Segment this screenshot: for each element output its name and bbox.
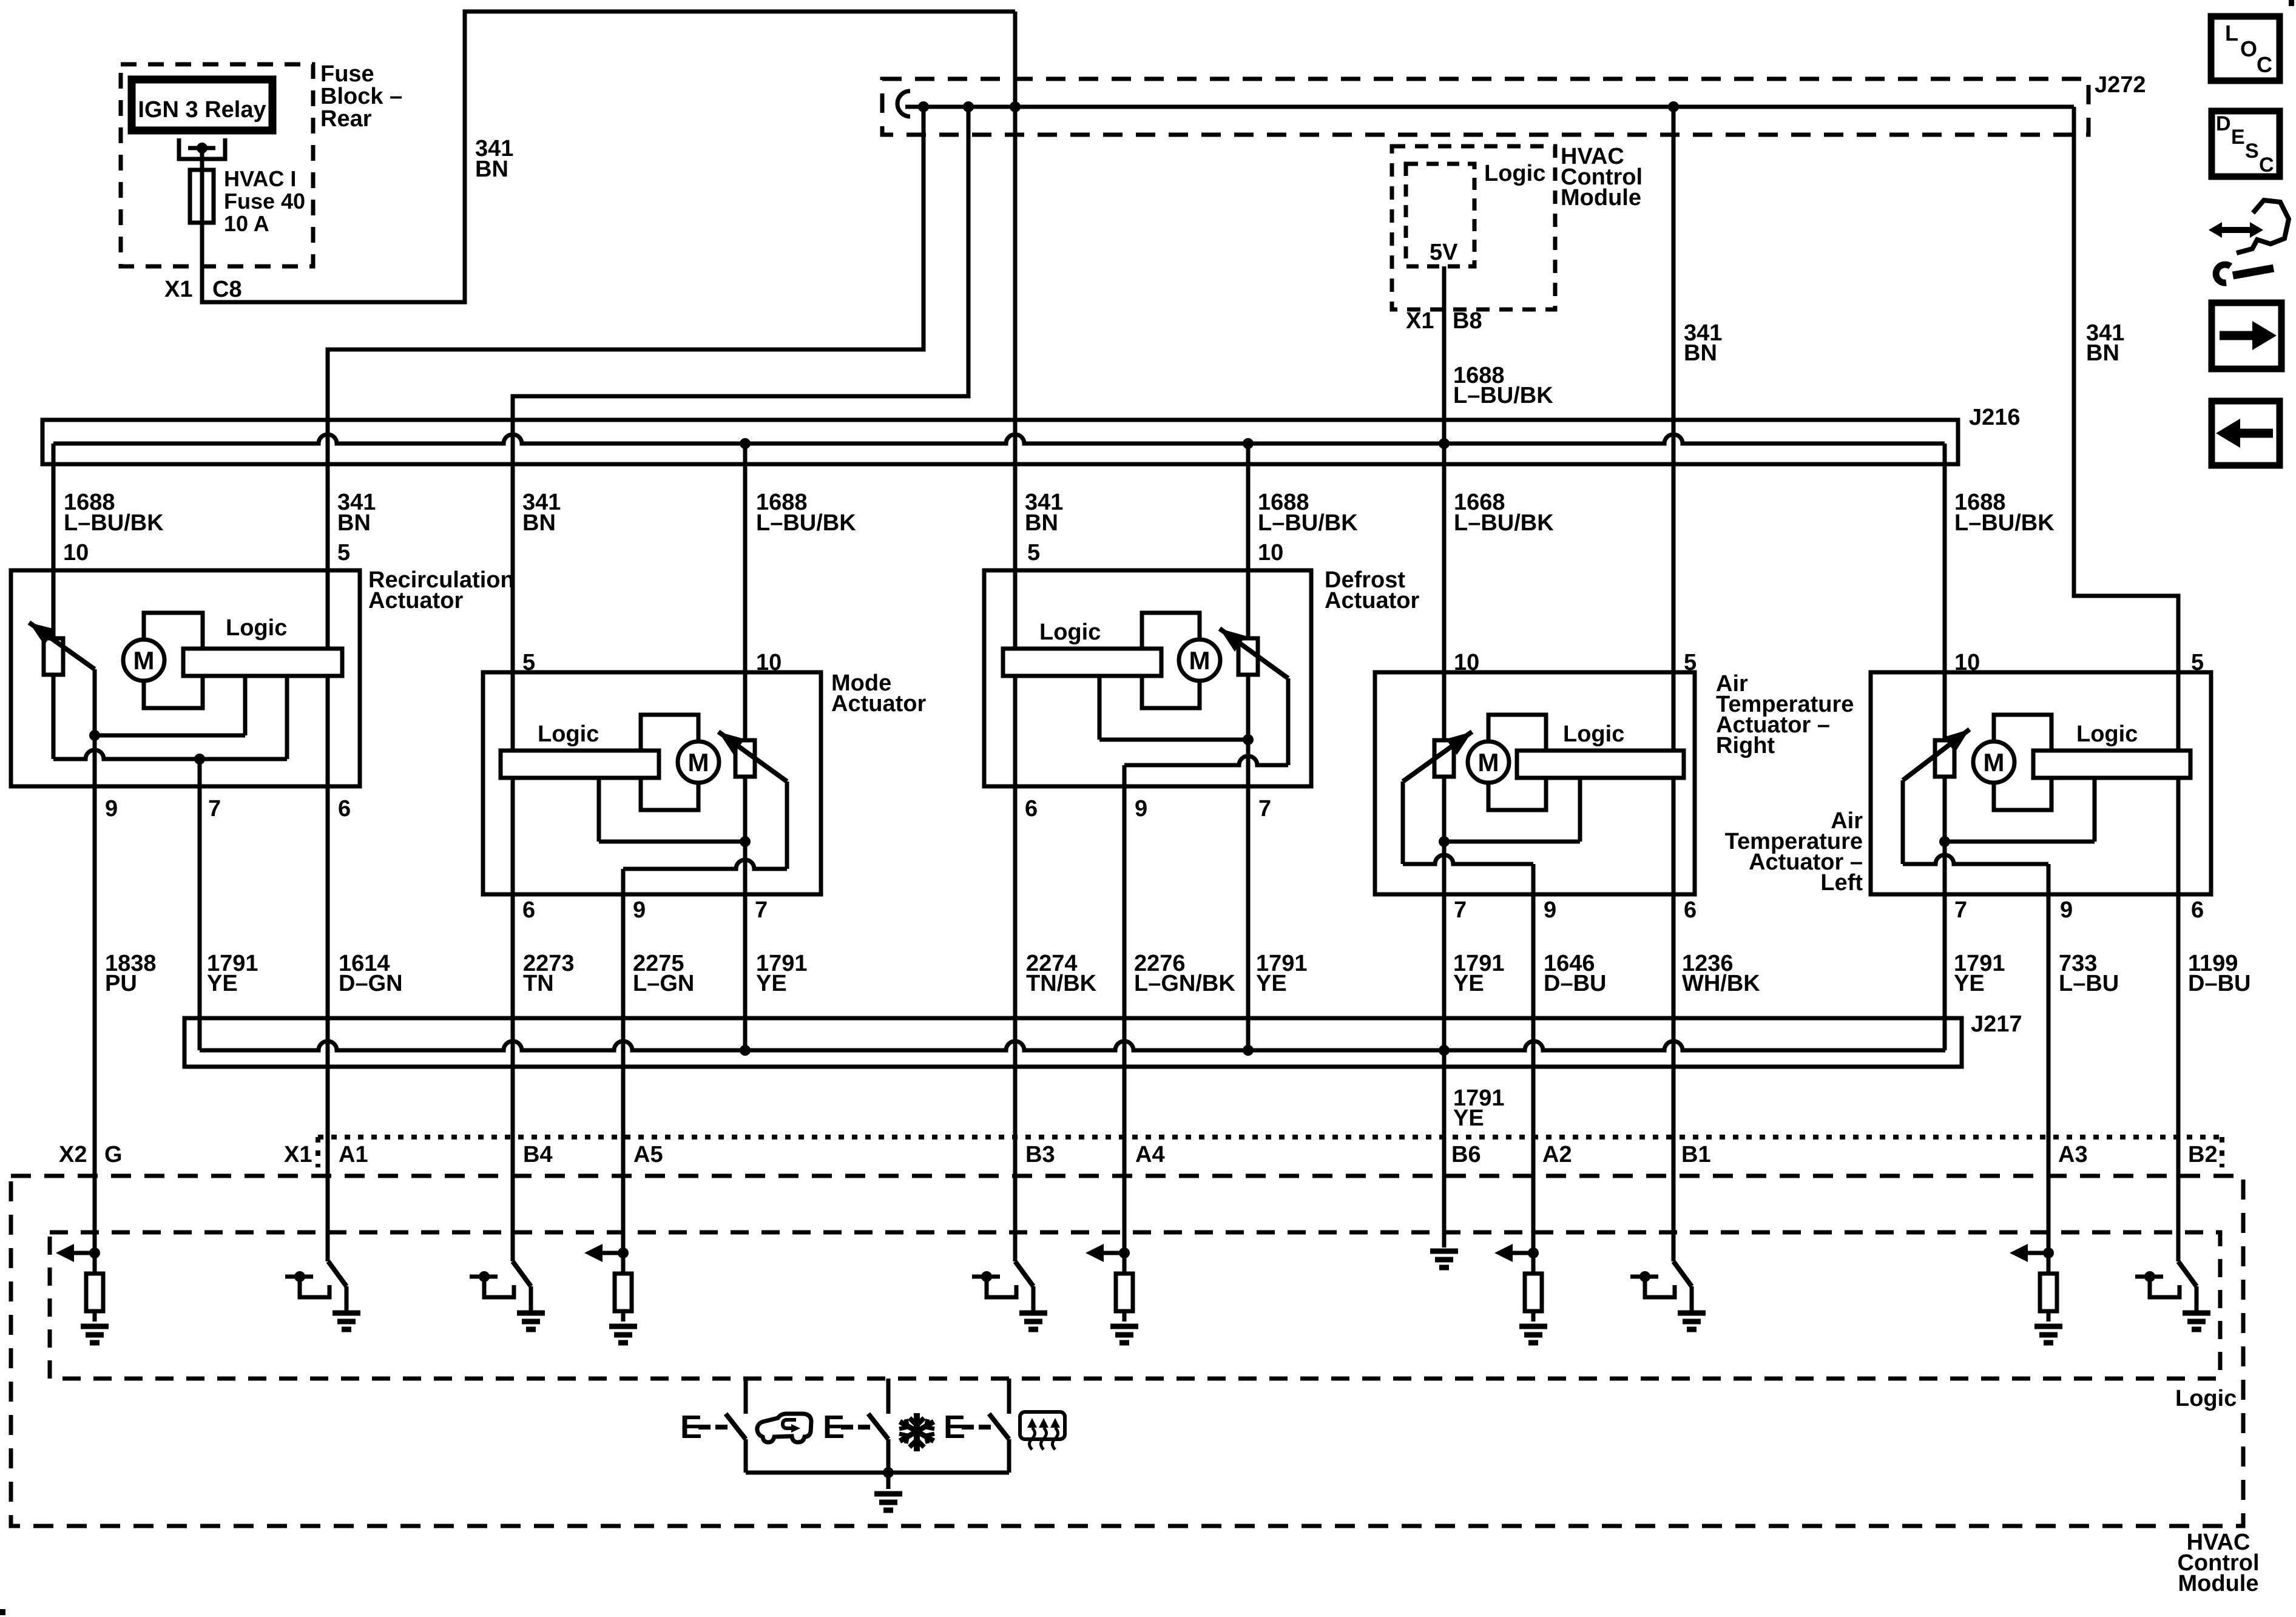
svg-text:5: 5 [1027, 540, 1040, 565]
motor M (Defrost) [1179, 640, 1220, 681]
switch to ground (A1) [285, 1275, 313, 1279]
svg-text:L–BU/BK: L–BU/BK [1954, 510, 2055, 536]
svg-text:Left: Left [1820, 870, 1863, 896]
motor frame (ATL) [1994, 715, 2051, 810]
svg-text:J272: J272 [2095, 72, 2146, 98]
svg-text:A5: A5 [633, 1142, 663, 1167]
svg-text:X1: X1 [1406, 308, 1434, 334]
svg-text:S: S [2245, 140, 2259, 163]
ground (B6) [1430, 1249, 1458, 1254]
svg-text:Right: Right [1716, 733, 1775, 758]
wire logic bar to pot junction (ATL) [2093, 778, 2097, 842]
motor frame (Mode) [641, 715, 698, 810]
svg-text:M: M [1478, 748, 1499, 777]
svg-text:B1: B1 [1681, 1142, 1711, 1167]
svg-text:7: 7 [1258, 796, 1271, 822]
motor M (Mode) [678, 741, 719, 783]
HVAC Control Module dashed box (bottom) [11, 1176, 2243, 1526]
wire wiper to pin 9 (ATL) [1901, 780, 1905, 864]
svg-text:5: 5 [2191, 650, 2204, 675]
svg-text:Module: Module [2178, 1571, 2259, 1596]
wire 341 BN J272 to Mode Actuator pin 5 [513, 107, 968, 751]
svg-text:TN/BK: TN/BK [1026, 971, 1097, 996]
logic bar (ATL) [2033, 751, 2190, 778]
svg-text:6: 6 [338, 796, 351, 822]
svg-text:10: 10 [1954, 650, 1980, 675]
svg-text:9: 9 [1135, 796, 1147, 822]
wire 341 BN J272 to Air Temp Right pin 5 [1672, 107, 1676, 751]
bus wire inside J217 with humps [200, 1041, 1945, 1050]
potentiometer (ATR) [1434, 740, 1454, 777]
pot wiper arrow (Recirc) [29, 623, 95, 669]
logic bar (Mode) [501, 751, 659, 778]
wire 1791 YE J217 to B6 [1442, 1050, 1447, 1247]
actuator box Air Temperature Actuator - Left [1871, 672, 2211, 894]
svg-text:Fuse: Fuse [320, 61, 374, 87]
wire 341 BN J272 to Recirculation Actuator pin 5 [328, 107, 923, 649]
fuse HVAC I Fuse 40 10 A [190, 170, 214, 223]
wire 341 BN vertical J272 to Defrost Actuator pin 5 [1013, 12, 1018, 649]
svg-text:C8: C8 [212, 277, 242, 302]
wire logic bar to pot junction (ATR) [1578, 778, 1582, 842]
logic bar (Defrost) [1003, 649, 1161, 676]
pot wiper arrow (Defrost) [1220, 629, 1288, 678]
svg-text:L: L [2225, 21, 2238, 46]
wire pin 7 Recirc to J217 [198, 759, 202, 1050]
ground (A2) [1519, 1324, 1547, 1329]
logic bar (Recirc) [183, 649, 342, 676]
svg-text:L–BU/BK: L–BU/BK [1453, 383, 1553, 408]
node J217 from Mode pin 7 [740, 1045, 751, 1056]
svg-text:A4: A4 [1135, 1142, 1165, 1167]
svg-text:X1: X1 [284, 1142, 312, 1167]
svg-text:J217: J217 [1971, 1011, 2022, 1037]
relay IGN 3 Relay [132, 79, 272, 130]
svg-text:C: C [2259, 154, 2274, 177]
logic output stub (recirculation switch) [744, 1379, 748, 1414]
actuator box Defrost Actuator [984, 570, 1311, 786]
motor M (Recirc) [123, 640, 164, 681]
svg-text:BN: BN [1684, 340, 1717, 366]
svg-text:O: O [2240, 36, 2257, 61]
svg-text:Block –: Block – [320, 84, 402, 109]
svg-text:G: G [104, 1142, 123, 1167]
pull-up sense node with arrow (A3) [2027, 1251, 2048, 1255]
page corner marks [2289, 0, 2294, 6]
resistor (A5) [621, 1253, 626, 1274]
wire 1646 D-BU ATR pin 9 to A2 [1531, 864, 1536, 1253]
svg-text:Logic: Logic [2175, 1386, 2237, 1411]
wire 341 BN J272 right end to Air Temp Left pin 5 [2074, 107, 2178, 751]
HVAC Control Module dashed box (top) [1392, 146, 1555, 309]
svg-text:Fuse 40: Fuse 40 [224, 189, 305, 214]
svg-text:10: 10 [63, 540, 89, 565]
switch to ground (B4) [470, 1275, 498, 1279]
resistor (A3) [2047, 1253, 2051, 1274]
svg-text:Actuator: Actuator [1325, 588, 1419, 613]
node J217 from ATR pin 7 [1439, 1045, 1450, 1056]
svg-text:5V: 5V [1430, 240, 1458, 265]
svg-text:5: 5 [522, 650, 535, 675]
svg-text:9: 9 [1544, 897, 1556, 923]
svg-text:X1: X1 [164, 277, 192, 302]
svg-text:YE: YE [207, 971, 238, 996]
svg-text:Module: Module [1561, 185, 1641, 211]
svg-text:D–BU: D–BU [1544, 971, 1606, 996]
svg-text:TN: TN [523, 971, 554, 996]
svg-text:D–BU: D–BU [2188, 971, 2250, 996]
motor frame (Defrost) [1142, 613, 1200, 708]
wire 1688 L-BU/BK J216 right end to ATL pin 10 [1943, 444, 1947, 740]
node pot junction (ATL) [1939, 836, 1950, 847]
potentiometer (ATL) [1935, 740, 1954, 777]
icon A/C snowflake [914, 1413, 920, 1451]
ground (A3) [2034, 1324, 2062, 1329]
logic dashed box with 5V source [1406, 164, 1474, 266]
ground (switch common) [886, 1473, 891, 1489]
svg-text:B6: B6 [1451, 1142, 1481, 1167]
logic inner dashed box [50, 1232, 2220, 1379]
wire 1688 L-BU/BK J216 to Mode pin 10 [743, 444, 748, 740]
wire pin6 ATR to B1 [1672, 778, 1676, 1261]
svg-text:HVAC I: HVAC I [224, 166, 296, 191]
svg-text:A3: A3 [2058, 1142, 2088, 1167]
svg-text:Logic: Logic [2076, 721, 2138, 747]
svg-text:7: 7 [208, 796, 221, 822]
svg-text:YE: YE [756, 971, 787, 996]
svg-text:10: 10 [1454, 650, 1479, 675]
svg-text:YE: YE [1954, 971, 1985, 996]
svg-text:L–BU/BK: L–BU/BK [756, 510, 856, 536]
bus wire inside J216 with pass-over humps [53, 434, 1945, 444]
ground (G) [81, 1324, 109, 1329]
icon box forward arrow [2212, 303, 2281, 369]
svg-text:9: 9 [2060, 897, 2073, 923]
wire switch common bus [746, 1471, 1009, 1475]
pull-up sense node with arrow (A5) [601, 1251, 623, 1255]
svg-text:Logic: Logic [538, 721, 599, 747]
wire logic bar to pot junction (Defrost) [1098, 676, 1102, 740]
wire pot bottom to pin 7 (ATR) [1442, 777, 1447, 1050]
relay pin connector symbol [179, 138, 225, 159]
resistor (A4) [1123, 1253, 1127, 1274]
motor frame (Recirc) [144, 613, 203, 708]
svg-text:B3: B3 [1025, 1142, 1055, 1167]
svg-text:BN: BN [475, 157, 508, 182]
icon box LOC [2211, 16, 2280, 81]
svg-text:L–GN: L–GN [633, 971, 694, 996]
svg-text:Actuator: Actuator [368, 588, 463, 613]
svg-text:6: 6 [1684, 897, 1697, 923]
ground (B1) [1678, 1311, 1706, 1316]
svg-text:BN: BN [2086, 340, 2119, 366]
wire pin6 Mode to B4 [511, 778, 515, 1261]
svg-text:B4: B4 [523, 1142, 553, 1167]
wire pin 6 Recirc to A1 [326, 676, 330, 1261]
wire 733 L-BU ATL pin 9 to A3 [2047, 864, 2051, 1253]
svg-text:6: 6 [1025, 796, 1038, 822]
potentiometer (Defrost) [1238, 638, 1258, 675]
ground (B4) [517, 1311, 545, 1316]
wire pot bottom to pin 7 (Defrost) [1246, 675, 1251, 1050]
node J216 to ATR pin 10 [1439, 438, 1450, 449]
node J272 tap 4 [1668, 101, 1679, 112]
wire 1688 L-BU/BK 5V B8 down to J216 [1442, 266, 1447, 444]
connector J216 body [42, 420, 1958, 464]
svg-text:D: D [2216, 112, 2231, 135]
svg-text:5: 5 [337, 540, 350, 565]
svg-text:A2: A2 [1542, 1142, 1572, 1167]
node J272 tap 1 [918, 101, 929, 112]
svg-text:PU: PU [105, 971, 137, 996]
svg-text:L–BU: L–BU [2059, 971, 2119, 996]
switch to ground (B2) [2135, 1275, 2163, 1279]
wire 1688 L-BU/BK J216 to Recirculation pin 10 [52, 444, 56, 638]
svg-text:Logic: Logic [226, 615, 287, 641]
ground (A5) [609, 1324, 637, 1329]
node pot junction (ATR) [1439, 836, 1450, 847]
svg-text:B8: B8 [1453, 308, 1482, 334]
svg-text:Logic: Logic [1039, 619, 1101, 645]
potentiometer (Mode) [735, 740, 755, 777]
logic bar (ATR) [1517, 751, 1684, 778]
wire pin6 ATL to B2 [2176, 778, 2181, 1261]
wire 1838 PU Recirc pin 9 to X2-G [93, 735, 97, 1253]
wire 1668 L-BU/BK J216 to ATR pin 10 [1442, 444, 1447, 740]
svg-text:YE: YE [1256, 971, 1287, 996]
svg-text:9: 9 [105, 796, 118, 822]
svg-text:D–GN: D–GN [339, 971, 403, 996]
logic output stub (defrost switch) [1007, 1379, 1011, 1414]
connector J272 dashed box [882, 79, 2088, 135]
svg-text:B2: B2 [2188, 1142, 2218, 1167]
svg-text:M: M [1189, 646, 1210, 675]
wire pin6 Defrost to B3 [1013, 676, 1018, 1261]
wire 341 BN from fuse through X1-C8 up to connector J272 [202, 12, 1015, 302]
connector X1 dotted outline [318, 1135, 2222, 1139]
icon recirculation car [757, 1414, 811, 1442]
wire 2276 L-GN/BK Defrost pin 9 to A4 [1123, 765, 1127, 1253]
svg-text:L–BU/BK: L–BU/BK [1454, 510, 1554, 536]
svg-text:10 A: 10 A [224, 211, 269, 236]
wire pot bottom to pin 7 (Mode) [743, 777, 748, 1050]
svg-text:6: 6 [2191, 897, 2204, 923]
svg-text:7: 7 [755, 897, 768, 923]
wire pot bottom to pin 7 (ATL) [1943, 777, 1947, 1050]
node pot junction (Mode) [740, 836, 751, 847]
svg-text:BN: BN [337, 510, 371, 536]
wire pot bottom to logic bar (Recirc) [52, 675, 56, 759]
icon box DESC [2212, 111, 2280, 177]
svg-text:6: 6 [522, 897, 535, 923]
connector J272 feed hook [897, 91, 910, 116]
svg-text:5: 5 [1684, 650, 1697, 675]
svg-text:Rear: Rear [320, 106, 372, 132]
node switch common [883, 1467, 894, 1478]
wire logic bar to pot junction (Mode) [597, 778, 601, 842]
svg-text:BN: BN [522, 510, 556, 536]
svg-text:7: 7 [1954, 897, 1967, 923]
pot wiper arrow (Mode) [718, 732, 787, 781]
svg-text:M: M [688, 748, 709, 777]
wire wiper to pin 9 (ATR) [1401, 781, 1405, 864]
svg-text:YE: YE [1453, 1106, 1484, 1131]
svg-text:Logic: Logic [1484, 161, 1545, 186]
svg-text:Actuator: Actuator [831, 691, 926, 717]
fuse block - rear dashed box [121, 64, 313, 266]
svg-text:L–BU/BK: L–BU/BK [64, 510, 164, 536]
svg-text:BN: BN [1025, 510, 1058, 536]
svg-text:WH/BK: WH/BK [1682, 971, 1760, 996]
ground (A4) [1110, 1324, 1138, 1329]
wire wiper to pin 9 (Defrost) [1286, 678, 1291, 765]
wire 1688 L-BU/BK J216 to Defrost pin 10 [1246, 444, 1251, 638]
pot wiper arrow (ATR) [1403, 732, 1472, 781]
svg-text:Logic: Logic [1563, 721, 1624, 747]
node wiper junction (Recirc) [89, 730, 100, 741]
pot wiper arrow (ATL) [1903, 729, 1970, 780]
svg-text:E: E [2231, 126, 2245, 149]
node J272 tap 2 [963, 101, 974, 112]
svg-text:9: 9 [633, 897, 646, 923]
svg-text:10: 10 [1258, 540, 1283, 565]
wire wiper junction to logic bar (Recirc) [93, 669, 97, 735]
switch to ground (B3) [972, 1275, 1000, 1279]
actuator box Recirculation Actuator [11, 570, 360, 786]
node pin7 junction (Recirc) [194, 754, 205, 765]
motor M (ATR) [1468, 741, 1509, 783]
connector J217 body [184, 1018, 1962, 1067]
node J272 tap 3 [1010, 101, 1021, 112]
wire wiper to pin 9 (Mode) [785, 781, 789, 869]
svg-text:IGN 3 Relay: IGN 3 Relay [138, 97, 266, 123]
pull-up sense node with arrow (G) [73, 1251, 95, 1255]
svg-text:L–GN/BK: L–GN/BK [1134, 971, 1235, 996]
actuator box Air Temperature Actuator - Right [1375, 672, 1695, 894]
resistor (A2) [1531, 1253, 1536, 1274]
ground (B3) [1019, 1311, 1047, 1316]
node J217 from Defrost pin 7 [1243, 1045, 1254, 1056]
svg-text:YE: YE [1453, 971, 1484, 996]
node J216 to Mode pin 10 [740, 438, 751, 449]
svg-text:10: 10 [756, 650, 782, 675]
wire 2275 L-GN Mode pin 9 to A5 [621, 869, 626, 1253]
svg-text:7: 7 [1454, 897, 1467, 923]
actuator box Mode Actuator [483, 672, 821, 894]
node pot junction (Defrost) [1243, 734, 1254, 745]
icon box back arrow [2212, 401, 2280, 465]
icon rear defrost [1020, 1412, 1065, 1439]
icon diagnostic wrench [2218, 227, 2254, 233]
svg-text:J216: J216 [1969, 405, 2021, 430]
ground (A1) [333, 1311, 360, 1316]
svg-text:L–BU/BK: L–BU/BK [1258, 510, 1358, 536]
motor M (ATL) [1973, 741, 2014, 783]
svg-text:M: M [1984, 748, 2005, 777]
switch to ground (B1) [1630, 1275, 1658, 1279]
motor frame (ATR) [1488, 715, 1546, 810]
bus wire inside J272 [905, 105, 2074, 109]
node J216 to Defrost pin 10 [1243, 438, 1254, 449]
logic output stub (A/C switch) [886, 1379, 891, 1414]
potentiometer (Recirc) [44, 638, 63, 675]
ground (B2) [2183, 1311, 2210, 1316]
resistor (G) [93, 1253, 97, 1274]
svg-text:A1: A1 [339, 1142, 368, 1167]
svg-text:X2: X2 [59, 1142, 87, 1167]
pull-up sense node with arrow (A2) [1511, 1251, 1533, 1255]
svg-text:C: C [2257, 52, 2272, 77]
svg-text:M: M [133, 646, 155, 675]
pull-up sense node with arrow (A4) [1102, 1251, 1124, 1255]
